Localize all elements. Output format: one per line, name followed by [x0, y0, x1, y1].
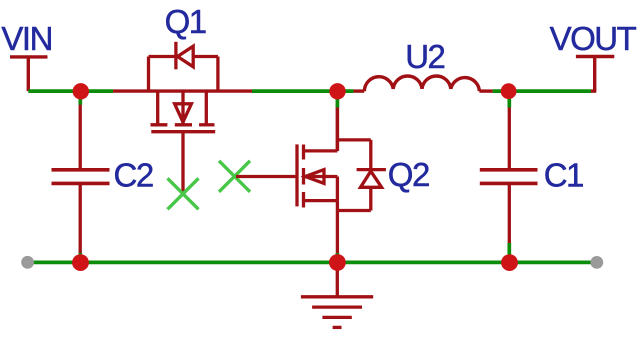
no-connect X on Q1 gate	[168, 178, 199, 209]
bottom rail wire	[27, 261, 597, 265]
svg-text:Q1: Q1	[165, 3, 206, 40]
Q1 gate stem	[181, 132, 184, 194]
no-connect X on Q2 gate	[219, 161, 250, 192]
wire junction B down to Q2 drain	[336, 91, 340, 107]
Q2 body drop to source	[336, 177, 339, 201]
wire junction C to C1	[507, 91, 511, 107]
Q2 channel bar middle	[302, 168, 305, 185]
junction C (VOUT node)	[501, 83, 517, 99]
Q1 body arrow	[175, 104, 192, 122]
wire C1 to bottom rail	[507, 243, 511, 262]
Q2 body diode branch bottom	[337, 209, 370, 212]
wire Q2 source to bottom rail	[336, 253, 340, 262]
C1 bottom plate	[480, 182, 538, 186]
wire junction B to U2	[493, 89, 591, 93]
svg-text:VIN: VIN	[1, 20, 52, 57]
svg-text:Q2: Q2	[388, 156, 429, 193]
capacitor C1	[480, 107, 538, 243]
Q1 body diode top wire right	[193, 55, 218, 58]
junction B (switch node)	[329, 83, 345, 99]
Q1 body diode right leg	[216, 57, 219, 92]
Q1 middle body stem	[181, 91, 184, 125]
Q2 body diode branch top	[337, 138, 370, 141]
Q1 body diode cathode bar	[174, 42, 177, 70]
C2 bottom pin	[79, 185, 82, 254]
C2 top pin	[79, 104, 82, 168]
wire junction A to Q1 left pin	[113, 89, 252, 92]
Q1 body diode left leg	[147, 57, 150, 92]
C1 top plate	[480, 168, 538, 172]
transistor Q2	[236, 105, 386, 253]
Q2 source contact	[304, 199, 338, 202]
capacitor C2	[52, 104, 110, 253]
wire C2 to bottom rail	[78, 253, 82, 262]
junction A (VIN node)	[73, 83, 89, 99]
wire VIN to junction A	[28, 89, 113, 93]
open wire end left	[21, 256, 34, 269]
open wire end right	[590, 256, 603, 269]
net label VOUT	[550, 20, 637, 91]
Q2 channel bar top	[302, 145, 305, 160]
Q1 right contact stub	[205, 91, 208, 125]
Q2 drain pin up	[336, 105, 339, 151]
svg-text:C2: C2	[114, 157, 153, 194]
wire junction A to C2	[78, 91, 82, 105]
Q2 gate plate	[295, 144, 298, 206]
Q2 gate pin wire	[236, 175, 297, 178]
svg-text:VOUT: VOUT	[550, 20, 637, 57]
junction bottom left	[72, 254, 89, 271]
Q2 channel bar bottom	[302, 192, 305, 208]
wire Q1 right pin to junction B	[252, 89, 354, 93]
Q1 body diode top wire left	[149, 55, 177, 58]
junction bottom middle (ground node)	[329, 254, 346, 271]
Q1 channel bar right	[199, 123, 214, 126]
inductor U2	[354, 76, 493, 91]
svg-text:U2: U2	[405, 38, 444, 75]
Q2 body line	[305, 175, 337, 178]
Q2 body diode triangle	[361, 171, 382, 187]
Q1 channel bar middle	[175, 123, 192, 126]
Q1 body diode triangle	[178, 46, 194, 67]
Q2 body diode cathode bar	[357, 168, 386, 171]
Q1 gate plate	[151, 130, 215, 133]
C2 bottom plate	[52, 182, 110, 186]
svg-text:C1: C1	[544, 157, 583, 194]
Q2 source pin down	[336, 201, 339, 253]
Q2 body arrow	[305, 170, 324, 184]
C1 top pin	[508, 107, 511, 168]
transistor Q1	[149, 42, 218, 194]
Q2 drain contact	[304, 149, 338, 152]
junction bottom right	[501, 254, 518, 271]
net label VIN	[1, 20, 52, 91]
C1 bottom pin	[508, 185, 511, 244]
Q1 left contact stub	[156, 91, 159, 125]
C2 top plate	[52, 168, 110, 172]
ground	[301, 262, 373, 327]
Q1 channel bar left	[151, 123, 168, 126]
